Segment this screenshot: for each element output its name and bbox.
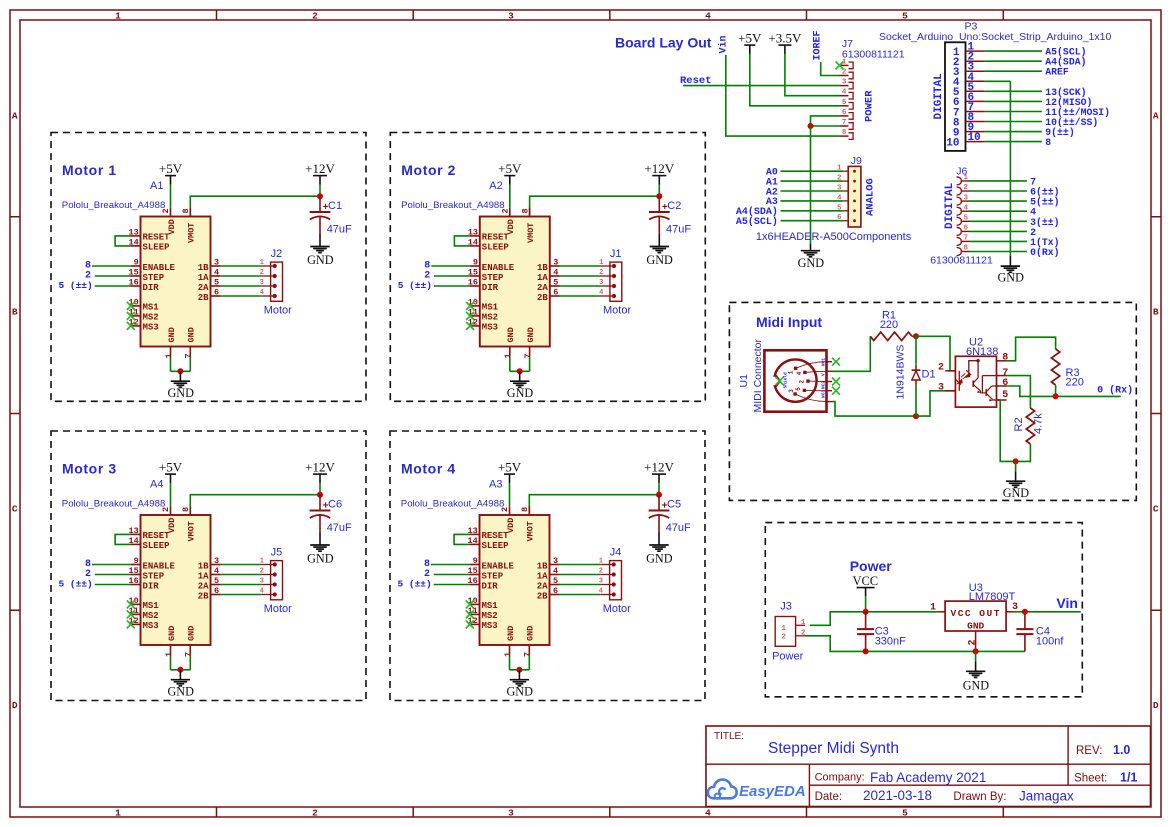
svg-text:J4: J4 — [610, 546, 622, 558]
svg-text:1A: 1A — [537, 273, 548, 283]
svg-text:Motor 4: Motor 4 — [401, 461, 456, 477]
svg-text:C6: C6 — [328, 499, 342, 511]
svg-text:3: 3 — [260, 578, 264, 586]
svg-text:5: 5 — [553, 278, 558, 288]
svg-text:+12V: +12V — [644, 460, 674, 475]
svg-text:U1: U1 — [738, 374, 750, 388]
svg-text:9: 9 — [134, 556, 139, 566]
svg-text:MS1: MS1 — [143, 601, 160, 611]
svg-text:GND: GND — [963, 679, 990, 693]
svg-text:Pololu_Breakout_A4988: Pololu_Breakout_A4988 — [62, 499, 165, 510]
svg-text:SLEEP: SLEEP — [143, 541, 171, 551]
svg-text:GND: GND — [506, 685, 533, 699]
svg-text:GND: GND — [646, 253, 673, 267]
svg-text:3: 3 — [837, 185, 842, 193]
svg-text:3: 3 — [938, 382, 944, 393]
svg-text:J6: J6 — [956, 166, 967, 178]
svg-text:8: 8 — [181, 507, 191, 512]
svg-text:2: 2 — [260, 269, 264, 277]
svg-text:A1: A1 — [150, 180, 163, 192]
svg-text:Vin: Vin — [717, 35, 729, 53]
svg-text:4: 4 — [553, 268, 558, 278]
svg-text:6: 6 — [964, 225, 969, 233]
svg-text:D: D — [1153, 700, 1159, 711]
svg-text:Shield: Shield — [783, 372, 789, 389]
svg-text:REV:: REV: — [1076, 745, 1102, 757]
svg-text:Sheet:: Sheet: — [1074, 773, 1107, 785]
svg-text:Motor 2: Motor 2 — [401, 162, 456, 178]
svg-text:A3: A3 — [489, 479, 502, 491]
svg-text:3: 3 — [842, 79, 847, 87]
svg-text:5 (±±): 5 (±±) — [58, 579, 92, 590]
svg-text:NC2: NC2 — [821, 381, 827, 389]
svg-text:9: 9 — [473, 556, 478, 566]
svg-text:Board Lay Out: Board Lay Out — [615, 35, 712, 51]
svg-text:5 (±±): 5 (±±) — [397, 579, 431, 590]
svg-text:STEP: STEP — [143, 571, 165, 581]
svg-text:+12V: +12V — [305, 460, 335, 475]
svg-text:+5V: +5V — [498, 460, 522, 475]
svg-text:R2: R2 — [1013, 417, 1025, 431]
svg-text:MS2: MS2 — [143, 313, 159, 323]
svg-text:6: 6 — [553, 586, 558, 596]
svg-text:MS2: MS2 — [482, 313, 498, 323]
svg-text:4: 4 — [796, 371, 803, 375]
svg-text:6: 6 — [214, 586, 219, 596]
svg-text:GND: GND — [187, 327, 197, 342]
svg-text:2B: 2B — [537, 293, 548, 303]
svg-text:Vin: Vin — [1056, 595, 1078, 611]
svg-text:1: 1 — [837, 165, 842, 173]
svg-text:+5V: +5V — [738, 31, 762, 46]
svg-text:A2: A2 — [489, 180, 502, 192]
svg-text:IOREF: IOREF — [813, 30, 824, 60]
svg-text:+12V: +12V — [644, 161, 674, 176]
svg-text:5: 5 — [837, 204, 842, 212]
svg-text:A5(SCL): A5(SCL) — [736, 216, 778, 228]
svg-text:1: 1 — [260, 558, 264, 566]
svg-text:1: 1 — [930, 603, 936, 614]
svg-text:NC3: NC3 — [821, 390, 827, 398]
svg-text:5: 5 — [214, 278, 219, 288]
svg-text:Pololu_Breakout_A4988: Pololu_Breakout_A4988 — [401, 499, 504, 510]
svg-text:1A: 1A — [198, 571, 209, 581]
svg-text:ENABLE: ENABLE — [143, 263, 176, 273]
svg-text:1: 1 — [164, 353, 174, 358]
svg-text:Motor 3: Motor 3 — [62, 461, 117, 477]
svg-text:4: 4 — [705, 807, 711, 818]
svg-text:RESET: RESET — [482, 233, 510, 243]
svg-text:VMOT: VMOT — [187, 223, 197, 243]
svg-text:STEP: STEP — [482, 273, 504, 283]
svg-text:MS3: MS3 — [482, 323, 498, 333]
svg-text:POWER: POWER — [864, 90, 876, 122]
svg-text:MS1: MS1 — [143, 303, 160, 313]
svg-text:6N138: 6N138 — [966, 346, 998, 358]
svg-text:3: 3 — [553, 556, 558, 566]
svg-text:2: 2 — [260, 568, 264, 576]
svg-text:VCC OUT: VCC OUT — [951, 608, 1001, 619]
svg-text:Motor: Motor — [603, 603, 631, 615]
svg-text:1: 1 — [801, 619, 806, 627]
svg-text:2: 2 — [599, 568, 603, 576]
svg-text:4: 4 — [705, 10, 711, 21]
svg-text:8: 8 — [1002, 353, 1008, 364]
svg-text:GND: GND — [307, 552, 334, 566]
svg-text:J9: J9 — [851, 155, 862, 167]
svg-text:C1: C1 — [328, 200, 342, 212]
svg-text:2A: 2A — [537, 581, 548, 591]
svg-text:ENABLE: ENABLE — [143, 561, 176, 571]
svg-text:100nf: 100nf — [1036, 636, 1064, 648]
svg-text:STEP: STEP — [482, 571, 504, 581]
svg-text:0 (Rx): 0 (Rx) — [1097, 385, 1133, 397]
svg-text:2: 2 — [938, 362, 944, 373]
svg-text:47uF: 47uF — [666, 522, 691, 534]
svg-text:220: 220 — [880, 319, 898, 331]
svg-text:J5: J5 — [271, 546, 283, 558]
svg-text:+5V: +5V — [159, 161, 183, 176]
svg-text:4: 4 — [214, 566, 219, 576]
svg-text:MS2: MS2 — [482, 611, 498, 621]
svg-text:A: A — [1153, 111, 1159, 122]
svg-text:3: 3 — [508, 10, 514, 21]
svg-text:B: B — [1153, 307, 1159, 318]
svg-text:6: 6 — [553, 288, 558, 298]
svg-text:Midi Input: Midi Input — [756, 314, 822, 330]
svg-text:1: 1 — [782, 625, 787, 633]
svg-text:61300811121: 61300811121 — [842, 49, 905, 61]
svg-text:1: 1 — [503, 652, 513, 657]
svg-text:MS3: MS3 — [143, 621, 159, 631]
svg-text:10: 10 — [968, 132, 981, 144]
svg-text:Company:: Company: — [815, 772, 865, 784]
svg-text:+5V: +5V — [159, 460, 183, 475]
svg-text:8: 8 — [1045, 137, 1051, 148]
svg-text:1: 1 — [260, 259, 264, 267]
svg-text:+12V: +12V — [305, 161, 335, 176]
svg-text:5: 5 — [553, 576, 558, 586]
svg-text:2B: 2B — [537, 591, 548, 601]
svg-text:10: 10 — [946, 137, 959, 149]
svg-text:GND: GND — [997, 271, 1024, 285]
svg-text:2: 2 — [501, 208, 511, 213]
svg-text:47uF: 47uF — [327, 522, 352, 534]
svg-text:6: 6 — [214, 288, 219, 298]
svg-text:V: V — [821, 373, 827, 376]
svg-text:AREF: AREF — [1045, 67, 1069, 78]
svg-text:2A: 2A — [198, 581, 209, 591]
svg-text:C: C — [1153, 504, 1159, 515]
svg-text:Drawn By:: Drawn By: — [953, 791, 1006, 803]
svg-text:7: 7 — [184, 652, 194, 657]
svg-text:5: 5 — [902, 807, 908, 818]
svg-text:6: 6 — [837, 214, 842, 222]
svg-text:3: 3 — [553, 258, 558, 268]
svg-text:4: 4 — [964, 204, 969, 212]
svg-text:NC1: NC1 — [821, 358, 827, 366]
svg-text:2: 2 — [599, 269, 603, 277]
svg-text:Socket_Arduino_Uno:Socket_Stri: Socket_Arduino_Uno:Socket_Strip_Arduino_… — [879, 31, 1111, 43]
svg-text:7: 7 — [964, 235, 969, 243]
svg-text:GND: GND — [167, 626, 177, 641]
svg-text:RESET: RESET — [143, 233, 171, 243]
svg-text:EasyEDA: EasyEDA — [739, 783, 806, 800]
svg-text:1x6HEADER-A500Components: 1x6HEADER-A500Components — [756, 231, 912, 243]
svg-text:5: 5 — [842, 99, 847, 107]
svg-text:7: 7 — [842, 119, 847, 127]
svg-text:J1: J1 — [610, 248, 622, 260]
svg-text:GND: GND — [506, 327, 516, 342]
svg-text:4: 4 — [599, 289, 603, 297]
svg-text:1.0: 1.0 — [1113, 743, 1130, 757]
svg-text:DIR: DIR — [482, 581, 499, 591]
svg-text:Stepper Midi Synth: Stepper Midi Synth — [768, 740, 899, 757]
svg-text:4.7k: 4.7k — [1033, 413, 1045, 434]
svg-text:4: 4 — [599, 588, 603, 596]
svg-text:7: 7 — [184, 353, 194, 358]
svg-text:DIGITAL: DIGITAL — [933, 73, 945, 120]
svg-text:8: 8 — [842, 129, 847, 137]
svg-text:GND: GND — [1003, 486, 1030, 500]
svg-text:C: C — [12, 504, 18, 515]
svg-text:GND: GND — [526, 327, 536, 342]
svg-text:GND: GND — [167, 685, 194, 699]
svg-text:VMOT: VMOT — [187, 521, 197, 541]
svg-text:3: 3 — [599, 578, 603, 586]
svg-text:1B: 1B — [537, 263, 548, 273]
svg-text:5: 5 — [964, 215, 969, 223]
svg-text:2B: 2B — [198, 591, 209, 601]
svg-text:3: 3 — [599, 279, 603, 287]
svg-text:VMOT: VMOT — [526, 223, 536, 243]
svg-text:8: 8 — [520, 208, 530, 213]
svg-text:SLEEP: SLEEP — [143, 243, 171, 253]
svg-text:9: 9 — [134, 258, 139, 268]
svg-text:VCC: VCC — [852, 574, 878, 588]
svg-text:3: 3 — [214, 556, 219, 566]
svg-text:1: 1 — [503, 353, 513, 358]
svg-text:TITLE:: TITLE: — [714, 731, 744, 742]
svg-text:2: 2 — [312, 807, 318, 818]
svg-text:LM7809T: LM7809T — [969, 591, 1016, 603]
svg-text:2A: 2A — [537, 283, 548, 293]
svg-text:+3.5V: +3.5V — [768, 31, 802, 46]
svg-text:9: 9 — [473, 258, 478, 268]
svg-text:Jamagax: Jamagax — [1019, 789, 1074, 804]
svg-text:2: 2 — [967, 639, 978, 645]
svg-text:2: 2 — [837, 175, 842, 183]
svg-text:Motor: Motor — [603, 305, 631, 317]
svg-text:4: 4 — [553, 566, 558, 576]
svg-text:DIR: DIR — [143, 283, 160, 293]
svg-text:MS1: MS1 — [482, 303, 499, 313]
svg-text:7: 7 — [523, 652, 533, 657]
svg-text:MS1: MS1 — [482, 601, 499, 611]
svg-text:STEP: STEP — [143, 273, 165, 283]
svg-text:GND: GND — [307, 253, 334, 267]
svg-text:J3: J3 — [780, 600, 792, 612]
svg-text:Power: Power — [772, 650, 804, 662]
svg-text:MS2: MS2 — [143, 611, 159, 621]
svg-text:SLEEP: SLEEP — [482, 243, 510, 253]
svg-text:A: A — [12, 111, 18, 122]
svg-text:GND: GND — [167, 386, 194, 400]
svg-text:MS3: MS3 — [143, 323, 159, 333]
svg-text:D1: D1 — [922, 369, 936, 381]
svg-text:220: 220 — [1066, 377, 1084, 389]
svg-text:Motor: Motor — [264, 305, 292, 317]
svg-text:61300811121: 61300811121 — [930, 255, 993, 267]
svg-text:GND: GND — [646, 552, 673, 566]
svg-text:8: 8 — [181, 208, 191, 213]
svg-text:Pololu_Breakout_A4988: Pololu_Breakout_A4988 — [401, 200, 504, 211]
svg-text:1A: 1A — [537, 571, 548, 581]
svg-text:2: 2 — [312, 10, 318, 21]
svg-text:5 (±±): 5 (±±) — [58, 280, 92, 291]
svg-text:0(Rx): 0(Rx) — [1030, 247, 1059, 258]
svg-text:2: 2 — [782, 634, 787, 642]
svg-text:5: 5 — [795, 387, 802, 391]
svg-text:B: B — [12, 307, 18, 318]
svg-text:3: 3 — [964, 194, 969, 202]
svg-text:7: 7 — [523, 353, 533, 358]
svg-text:SLEEP: SLEEP — [482, 541, 510, 551]
svg-text:5: 5 — [902, 10, 908, 21]
svg-text:4: 4 — [260, 289, 264, 297]
svg-text:1B: 1B — [198, 263, 209, 273]
svg-text:DIGITAL: DIGITAL — [944, 182, 956, 229]
svg-text:47uF: 47uF — [327, 223, 352, 235]
svg-text:GND: GND — [507, 386, 534, 400]
svg-text:GND: GND — [187, 626, 197, 641]
svg-text:2021-03-18: 2021-03-18 — [863, 788, 932, 803]
svg-text:J2: J2 — [271, 248, 283, 260]
svg-text:2: 2 — [161, 208, 171, 213]
svg-text:GND: GND — [167, 327, 177, 342]
svg-text:ENABLE: ENABLE — [482, 561, 515, 571]
svg-text:1: 1 — [115, 807, 121, 818]
svg-text:5: 5 — [214, 576, 219, 586]
svg-text:4: 4 — [214, 268, 219, 278]
svg-text:4: 4 — [260, 588, 264, 596]
svg-text:2B: 2B — [198, 293, 209, 303]
svg-text:1: 1 — [788, 370, 795, 374]
svg-text:2: 2 — [500, 507, 510, 512]
svg-text:GND: GND — [526, 626, 536, 641]
svg-text:3: 3 — [788, 389, 795, 393]
svg-text:3: 3 — [214, 258, 219, 268]
svg-text:Fab Academy 2021: Fab Academy 2021 — [870, 770, 986, 785]
svg-text:Power: Power — [850, 558, 893, 574]
svg-text:GND: GND — [967, 620, 984, 631]
svg-text:RESET: RESET — [482, 531, 510, 541]
svg-text:D: D — [12, 700, 18, 711]
svg-text:ANALOG: ANALOG — [865, 178, 877, 216]
svg-text:VMOT: VMOT — [526, 521, 536, 541]
svg-text:MIDI Connector: MIDI Connector — [752, 338, 764, 412]
svg-text:1B: 1B — [198, 561, 209, 571]
svg-text:1: 1 — [164, 652, 174, 657]
svg-text:8: 8 — [520, 507, 530, 512]
svg-text:2A: 2A — [198, 283, 209, 293]
svg-text:MS3: MS3 — [482, 621, 498, 631]
svg-text:GND: GND — [506, 626, 516, 641]
svg-text:8: 8 — [964, 245, 969, 253]
svg-text:Pololu_Breakout_A4988: Pololu_Breakout_A4988 — [62, 200, 165, 211]
svg-text:1/1: 1/1 — [1120, 771, 1137, 785]
svg-text:330nF: 330nF — [875, 636, 906, 648]
svg-text:1: 1 — [115, 10, 121, 21]
svg-text:ENABLE: ENABLE — [482, 263, 515, 273]
svg-text:GND: GND — [798, 256, 825, 270]
svg-text:Date:: Date: — [815, 791, 843, 803]
svg-text:A4: A4 — [150, 479, 163, 491]
svg-text:DIR: DIR — [143, 581, 160, 591]
svg-text:2: 2 — [964, 184, 969, 192]
svg-text:6: 6 — [842, 109, 847, 117]
svg-text:Motor: Motor — [264, 603, 292, 615]
svg-text:DIR: DIR — [482, 283, 499, 293]
svg-text:1: 1 — [599, 259, 603, 267]
svg-text:1A: 1A — [198, 273, 209, 283]
svg-text:+5V: +5V — [498, 161, 522, 176]
svg-text:Motor 1: Motor 1 — [62, 162, 117, 178]
svg-text:3: 3 — [508, 807, 514, 818]
svg-text:5: 5 — [1002, 390, 1008, 401]
svg-text:RESET: RESET — [143, 531, 171, 541]
svg-text:1: 1 — [599, 558, 603, 566]
svg-text:C2: C2 — [667, 200, 681, 212]
svg-text:5 (±±): 5 (±±) — [398, 280, 432, 291]
svg-text:2: 2 — [161, 507, 171, 512]
svg-text:4: 4 — [837, 194, 842, 202]
svg-text:3: 3 — [260, 279, 264, 287]
svg-text:47uF: 47uF — [666, 223, 691, 235]
svg-text:4: 4 — [842, 89, 847, 97]
svg-text:C5: C5 — [667, 499, 681, 511]
svg-text:6: 6 — [1002, 378, 1008, 389]
svg-text:2: 2 — [799, 380, 806, 384]
svg-text:1N914BWS: 1N914BWS — [895, 345, 907, 400]
svg-text:1B: 1B — [537, 561, 548, 571]
